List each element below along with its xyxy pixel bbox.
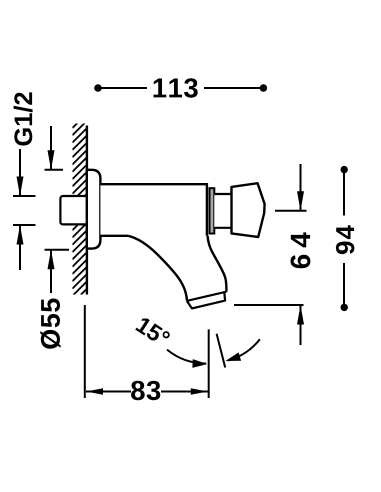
dimension O55 (flange diameter): [40, 126, 69, 349]
spout outline: [128, 236, 226, 301]
dimension 64 (axis to outlet): [234, 164, 310, 345]
faucet body: [100, 184, 207, 236]
dimension 83 (wall to outlet): [85, 305, 209, 400]
inlet block (G1/2 thread): [60, 196, 88, 224]
spout fill: [128, 236, 226, 301]
push-button knob: [232, 183, 265, 237]
wall face line: [86, 126, 88, 295]
dimension G1/2 (thread size): [13, 92, 36, 270]
button neck: [214, 194, 231, 228]
spout end edge: [187, 292, 227, 301]
dimension 94 (overall height): [336, 166, 355, 311]
aerator collar: [187, 292, 225, 308]
dimension 15 deg (outlet angle): [135, 316, 260, 368]
dimension 113 (top width): [94, 78, 267, 98]
cartridge ring: [210, 188, 215, 233]
wall hatching: [72, 114, 87, 304]
wall flange (escutcheon): [87, 170, 101, 249]
